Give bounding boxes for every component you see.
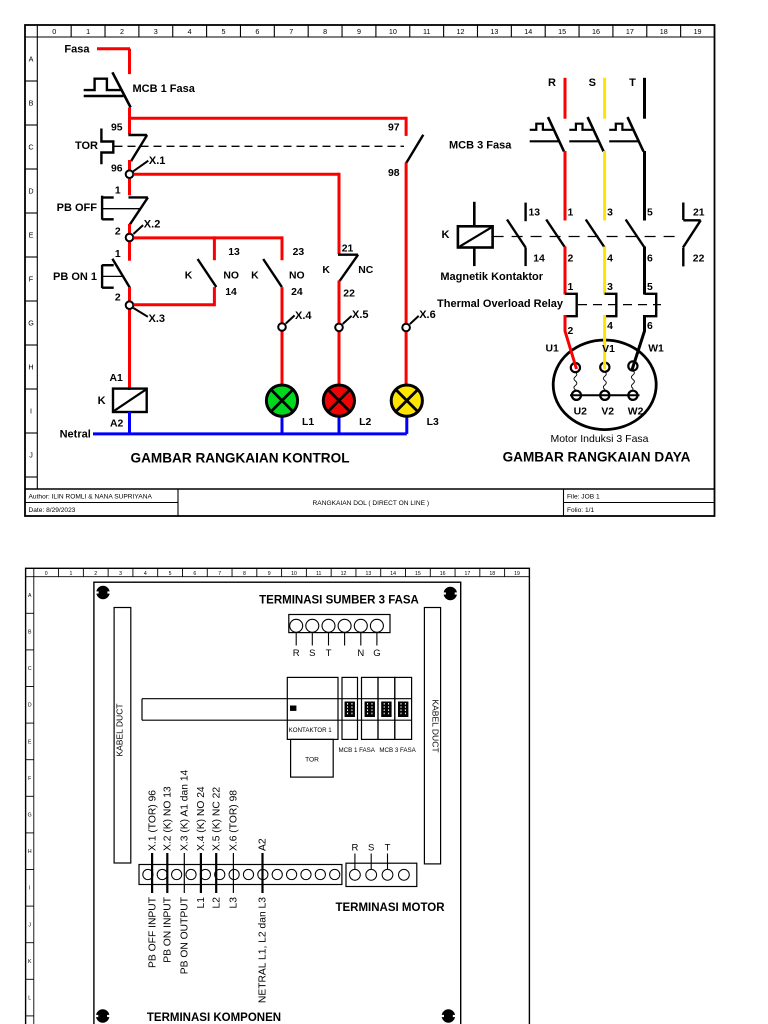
svg-text:2: 2 [115, 293, 121, 304]
svg-text:K: K [442, 229, 450, 241]
contactor main contact 3-4 [586, 208, 613, 295]
svg-text:2: 2 [94, 571, 97, 577]
svg-text:16: 16 [440, 571, 446, 577]
svg-text:12: 12 [457, 27, 465, 36]
sheet 1 border frame [25, 25, 715, 516]
svg-text:2: 2 [120, 27, 124, 36]
wire 96 to X.1 [128, 160, 131, 195]
node S phase [589, 77, 605, 119]
wire X.3 to contact 14 [134, 287, 215, 306]
svg-text:16: 16 [592, 27, 600, 36]
aux contact K NO 13-14 [185, 247, 240, 298]
wire MCB output vertical bus [128, 108, 131, 135]
svg-text:10: 10 [291, 571, 297, 577]
svg-text:7: 7 [289, 27, 293, 36]
svg-text:MCB 3 FASA: MCB 3 FASA [379, 747, 416, 754]
svg-text:R: R [548, 77, 556, 89]
wire terminal X.3 (K) A1 dan 14 [180, 769, 191, 974]
svg-text:Magnetik Kontaktor: Magnetik Kontaktor [440, 271, 543, 283]
svg-text:6: 6 [193, 571, 196, 577]
caption motor [550, 433, 648, 445]
svg-text:MCB 1 FASA: MCB 1 FASA [338, 747, 375, 754]
svg-text:GAMBAR RANGKAIAN DAYA: GAMBAR RANGKAIAN DAYA [503, 449, 691, 464]
svg-text:A2: A2 [110, 419, 124, 430]
svg-text:Fasa: Fasa [64, 44, 90, 56]
svg-text:RANGKAIAN DOL ( DIRECT ON LINE: RANGKAIAN DOL ( DIRECT ON LINE ) [313, 500, 430, 507]
svg-text:1: 1 [115, 185, 121, 196]
kontaktor 1 box [287, 677, 338, 739]
wire terminal X.5 (K) NC 22 [211, 787, 222, 909]
svg-text:L1: L1 [196, 897, 207, 909]
motor M1: Motor Induksi 3 Fasa [553, 340, 656, 430]
svg-text:R: R [293, 648, 300, 659]
svg-text:22: 22 [343, 289, 355, 300]
svg-text:7: 7 [218, 571, 221, 577]
svg-text:6: 6 [255, 27, 259, 36]
svg-text:X.2 (K) NO 13: X.2 (K) NO 13 [163, 786, 174, 851]
svg-text:17: 17 [465, 571, 471, 577]
svg-text:1: 1 [568, 208, 574, 219]
svg-text:L3: L3 [427, 417, 439, 428]
kabel duct left [114, 608, 131, 864]
terminal X.5 [335, 309, 368, 331]
overload heater element phase 1 [565, 282, 577, 337]
aux contact K NC 21-22 [322, 244, 373, 300]
wire S MCB to contactor [603, 151, 606, 221]
node T phase [629, 77, 644, 119]
svg-text:G: G [373, 648, 380, 659]
Thermal Overload Relay label [437, 298, 564, 310]
svg-text:11: 11 [316, 571, 321, 577]
svg-text:PB OFF: PB OFF [57, 202, 98, 214]
svg-text:14: 14 [524, 27, 532, 36]
component panel board [94, 582, 461, 1024]
svg-text:X.1: X.1 [149, 155, 166, 167]
svg-text:95: 95 [111, 122, 123, 133]
svg-text:Thermal Overload Relay: Thermal Overload Relay [437, 298, 564, 310]
mounting screw [96, 586, 111, 598]
svg-text:X.6 (TOR) 98: X.6 (TOR) 98 [229, 790, 240, 851]
mounting screw [443, 587, 458, 599]
svg-text:21: 21 [693, 208, 705, 219]
svg-text:A1: A1 [110, 373, 124, 384]
svg-text:D: D [28, 703, 32, 709]
svg-text:A: A [29, 55, 34, 64]
svg-text:J: J [29, 451, 33, 460]
svg-text:L1: L1 [302, 417, 314, 428]
svg-text:W2: W2 [628, 406, 644, 417]
svg-text:V1: V1 [602, 344, 615, 355]
svg-text:3: 3 [154, 27, 158, 36]
svg-text:KONTAKTOR 1: KONTAKTOR 1 [289, 727, 333, 734]
svg-text:A: A [28, 593, 32, 599]
MCB 3 fasa modules [362, 677, 417, 754]
terminal X.1 [126, 155, 166, 178]
svg-text:I: I [30, 407, 32, 416]
wire terminal X.1 (TOR) 96 [147, 790, 158, 968]
svg-text:8: 8 [323, 27, 327, 36]
svg-text:97: 97 [388, 122, 400, 133]
svg-text:S: S [589, 77, 596, 89]
contactor main contact 1-2 [546, 208, 573, 295]
caption terminasi sumber 3 fasa [259, 594, 419, 606]
lamp L1 (green) [266, 385, 314, 434]
svg-text:N: N [357, 648, 364, 659]
svg-text:X.5: X.5 [352, 309, 369, 321]
svg-text:Motor Induksi 3 Fasa: Motor Induksi 3 Fasa [550, 433, 648, 445]
svg-text:12: 12 [341, 571, 347, 577]
svg-text:E: E [28, 739, 32, 745]
title block [25, 489, 715, 516]
wire terminal A2 [258, 838, 269, 1003]
svg-text:T: T [629, 77, 636, 89]
svg-text:NC: NC [358, 265, 374, 276]
node R phase [548, 77, 565, 119]
svg-text:13: 13 [228, 247, 240, 258]
svg-text:L2: L2 [211, 897, 222, 909]
svg-text:X.4 (K) NO 24: X.4 (K) NO 24 [196, 786, 207, 851]
svg-text:NO: NO [223, 271, 239, 282]
svg-text:H: H [28, 363, 33, 372]
svg-text:U1: U1 [546, 343, 560, 354]
svg-text:PB ON INPUT: PB ON INPUT [163, 896, 174, 963]
svg-text:4: 4 [188, 27, 192, 36]
svg-text:J: J [28, 922, 31, 928]
wire 24 to lamp L1 [281, 287, 284, 384]
wire X.2 to hold branches 13 / 23 [134, 236, 283, 260]
wire contact 4 to overload [603, 247, 606, 295]
svg-text:TERMINASI KOMPONEN: TERMINASI KOMPONEN [147, 1012, 281, 1024]
svg-text:3: 3 [119, 571, 122, 577]
svg-text:X.2: X.2 [144, 219, 161, 231]
svg-text:96: 96 [111, 163, 123, 174]
wire overload to motor V1 [603, 315, 606, 369]
caption terminasi komponen [147, 1012, 281, 1024]
wire terminal X.2 (K) NO 13 [163, 786, 174, 963]
svg-text:1: 1 [568, 282, 574, 293]
wire contact 2 to overload [564, 247, 567, 295]
svg-text:NO: NO [289, 271, 305, 282]
svg-text:F: F [29, 275, 34, 284]
svg-text:H: H [28, 849, 32, 855]
MCB 1 fasa module [338, 677, 375, 754]
svg-text:L2: L2 [359, 417, 371, 428]
svg-text:TOR: TOR [75, 140, 98, 152]
svg-text:K: K [322, 265, 330, 276]
svg-text:NETRAL L1, L2 dan L3: NETRAL L1, L2 dan L3 [258, 897, 269, 1003]
wire X.1 to K NC branch [134, 173, 340, 255]
wire overload to motor W1 [632, 315, 645, 371]
svg-text:K: K [98, 395, 106, 407]
overload heater element phase 2 [605, 282, 617, 332]
svg-text:19: 19 [694, 27, 702, 36]
svg-text:L: L [28, 996, 31, 1002]
wire A2 to neutral [128, 412, 131, 434]
svg-text:KABEL DUCT: KABEL DUCT [431, 699, 441, 752]
mounting screw [441, 1010, 456, 1022]
MCB 3 fasa pole 2 [569, 117, 604, 220]
svg-text:X.5 (K) NC 22: X.5 (K) NC 22 [211, 787, 222, 851]
wire T MCB to contactor [643, 151, 646, 221]
svg-text:G: G [28, 813, 32, 819]
svg-text:14: 14 [225, 287, 237, 298]
sheet 2 border frame [26, 568, 530, 1024]
svg-text:File: JOB 1: File: JOB 1 [567, 493, 600, 500]
svg-text:C: C [28, 666, 32, 672]
svg-text:I: I [29, 886, 30, 892]
svg-text:98: 98 [388, 168, 400, 179]
wire PB OFF to X.2 [128, 224, 131, 261]
svg-text:T: T [326, 648, 332, 659]
svg-text:2: 2 [568, 253, 574, 264]
wire overload to motor U1 [565, 315, 577, 369]
wire terminal X.6 (TOR) 98 [229, 790, 240, 909]
lamp L3 (yellow) [391, 385, 439, 434]
svg-text:3: 3 [607, 282, 613, 293]
neutral bus wire [60, 429, 407, 441]
svg-text:PB ON OUTPUT: PB ON OUTPUT [180, 896, 191, 974]
svg-text:G: G [28, 319, 34, 328]
svg-text:MCB 3 Fasa: MCB 3 Fasa [449, 140, 512, 152]
kabel duct right [424, 608, 440, 864]
svg-text:Folio: 1/1: Folio: 1/1 [567, 507, 594, 514]
svg-text:18: 18 [489, 571, 495, 577]
lamp L2 (red) [323, 385, 371, 434]
wire PB ON to X.3 [128, 287, 131, 390]
TOR thermal relay symbol [75, 129, 113, 165]
svg-text:Netral: Netral [60, 429, 91, 441]
pushbutton PB ON 1 (NO) [53, 249, 130, 304]
caption power circuit [503, 449, 691, 464]
svg-text:9: 9 [357, 27, 361, 36]
svg-text:24: 24 [291, 287, 303, 298]
svg-text:4: 4 [607, 253, 613, 264]
svg-text:S: S [309, 648, 315, 659]
svg-text:B: B [28, 630, 32, 636]
svg-text:5: 5 [647, 282, 653, 293]
svg-text:D: D [28, 187, 33, 196]
svg-text:0: 0 [52, 27, 56, 36]
svg-text:15: 15 [558, 27, 566, 36]
contactor coil K (power) [440, 202, 543, 283]
svg-text:19: 19 [514, 571, 520, 577]
svg-text:C: C [28, 143, 33, 152]
svg-text:6: 6 [647, 253, 653, 264]
MCB Q1: MCB 1 Fasa [84, 72, 196, 107]
component terminal strip [139, 865, 342, 885]
dashed link TOR to contact 97-98 [115, 145, 405, 147]
svg-text:13: 13 [529, 208, 541, 219]
svg-text:23: 23 [293, 247, 305, 258]
contactor aux contact 13-14 [507, 203, 545, 267]
contactor main contact 5-6 [626, 208, 653, 295]
TOR contact 97-98 (NO) [388, 122, 423, 179]
terminal X.4 [278, 310, 312, 331]
svg-text:X.1 (TOR) 96: X.1 (TOR) 96 [147, 790, 158, 851]
svg-text:GAMBAR RANGKAIAN KONTROL: GAMBAR RANGKAIAN KONTROL [131, 451, 350, 466]
svg-text:X.4: X.4 [295, 310, 312, 322]
wire terminal X.4 (K) NO 24 [196, 786, 207, 908]
svg-text:E: E [29, 231, 34, 240]
wire 98 to lamp L3 [405, 163, 408, 385]
MCB 3 Fasa label [449, 140, 512, 152]
svg-text:14: 14 [390, 571, 396, 577]
overload heater element phase 3 [645, 282, 657, 332]
pushbutton PB OFF (NC) [57, 185, 148, 237]
contactor coil K A1-A2 [98, 373, 147, 430]
svg-text:1: 1 [70, 571, 73, 577]
terminal X.6 [402, 309, 435, 331]
dashed link contactor contacts [493, 236, 682, 238]
svg-text:3: 3 [607, 208, 613, 219]
dashed link overload [578, 304, 661, 306]
svg-text:F: F [28, 776, 31, 782]
svg-text:13: 13 [490, 27, 498, 36]
wire contact 6 to overload [643, 247, 646, 295]
svg-text:T: T [385, 843, 391, 854]
svg-text:17: 17 [626, 27, 634, 36]
svg-text:K: K [28, 959, 32, 965]
svg-text:Author: ILIN ROMLI & NANA SUPR: Author: ILIN ROMLI & NANA SUPRIYANA [29, 493, 153, 500]
svg-text:5: 5 [647, 208, 653, 219]
svg-text:X.3 (K) A1 dan 14: X.3 (K) A1 dan 14 [180, 769, 191, 851]
svg-text:PB OFF INPUT: PB OFF INPUT [147, 896, 158, 968]
TOR trip contact 95-96 [111, 122, 147, 174]
svg-text:6: 6 [647, 321, 653, 332]
aux contact K NO 23-24 [251, 247, 304, 298]
svg-text:15: 15 [415, 571, 421, 577]
svg-text:5: 5 [222, 27, 226, 36]
svg-text:9: 9 [268, 571, 271, 577]
svg-text:8: 8 [243, 571, 246, 577]
mounting screw [95, 1010, 110, 1022]
svg-text:10: 10 [389, 27, 397, 36]
svg-text:5: 5 [169, 571, 172, 577]
contactor NC contact 21-22 [683, 203, 705, 267]
svg-text:A2: A2 [258, 838, 269, 851]
MCB 3 fasa pole 3 [609, 117, 644, 220]
TOR box [291, 739, 334, 777]
svg-text:22: 22 [693, 253, 705, 264]
motor terminal strip [346, 843, 417, 887]
svg-text:PB ON 1: PB ON 1 [53, 271, 97, 283]
svg-text:MCB 1 Fasa: MCB 1 Fasa [133, 83, 196, 95]
svg-text:14: 14 [533, 253, 545, 264]
svg-text:Date: 8/29/2023: Date: 8/29/2023 [29, 507, 76, 514]
svg-text:B: B [29, 99, 34, 108]
svg-text:U2: U2 [574, 406, 588, 417]
svg-text:1: 1 [115, 249, 121, 260]
caption control circuit [131, 451, 350, 466]
svg-text:11: 11 [423, 27, 430, 36]
svg-text:L3: L3 [229, 897, 240, 909]
source terminal block R S T N G [289, 615, 390, 660]
wire 22 to lamp L2 [338, 281, 341, 385]
terminal X.2 [126, 219, 161, 242]
svg-text:W1: W1 [648, 343, 664, 354]
svg-text:KABEL DUCT: KABEL DUCT [115, 703, 125, 756]
svg-text:S: S [368, 843, 374, 854]
caption terminasi motor [335, 902, 445, 914]
MCB 3 fasa pole 1 [530, 117, 565, 220]
wire Fasa to MCB [97, 49, 130, 74]
svg-text:V2: V2 [601, 406, 614, 417]
svg-text:X.3: X.3 [149, 313, 166, 325]
svg-text:2: 2 [115, 226, 121, 237]
svg-text:4: 4 [144, 571, 147, 577]
svg-text:TOR: TOR [305, 757, 319, 764]
svg-text:13: 13 [365, 571, 371, 577]
wire R MCB to contactor [564, 151, 567, 221]
node Fasa (phase) label [64, 44, 90, 56]
svg-text:18: 18 [660, 27, 668, 36]
svg-text:K: K [185, 271, 193, 282]
terminal X.3 [126, 301, 165, 324]
motor terminal labels U1 V1 W1 [546, 343, 664, 355]
svg-text:TERMINASI SUMBER 3 FASA: TERMINASI SUMBER 3 FASA [259, 594, 419, 606]
svg-text:TERMINASI MOTOR: TERMINASI MOTOR [335, 902, 445, 914]
svg-text:2: 2 [568, 326, 574, 337]
svg-text:0: 0 [45, 571, 48, 577]
svg-text:1: 1 [86, 27, 90, 36]
svg-text:4: 4 [607, 321, 613, 332]
svg-text:R: R [351, 843, 358, 854]
svg-text:K: K [251, 271, 259, 282]
DIN rail [142, 699, 412, 721]
svg-text:21: 21 [342, 244, 354, 255]
wire branch to TOR contact 97 [130, 117, 407, 136]
svg-text:X.6: X.6 [419, 309, 436, 321]
